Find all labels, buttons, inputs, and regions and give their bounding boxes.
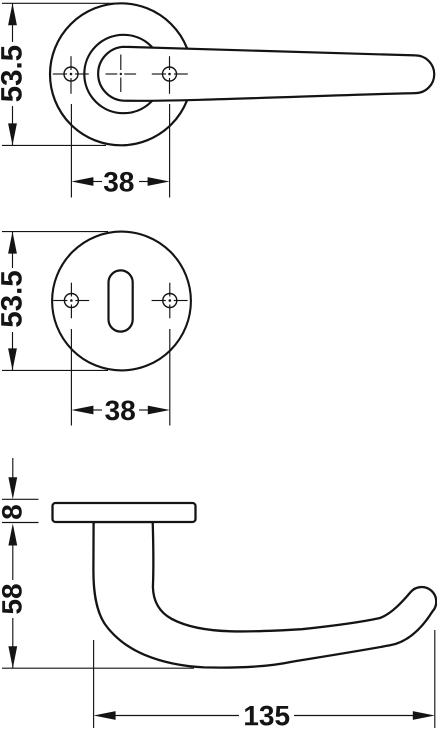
arrow down onto rose top (8 dim): [8, 477, 17, 499]
extension line left (38 dim view 2): [70, 329, 72, 426]
screw hole right dot (view 2): [169, 299, 172, 302]
dimension text 53.5 (view 1): [1, 46, 22, 102]
extension line rose top (8 dim): [2, 498, 39, 500]
escutcheon circle: [52, 232, 191, 371]
extension line right (38 dim view 1): [169, 104, 171, 198]
arrow down (53.5 view 1): [8, 123, 17, 145]
screw hole right (view 1) crosshair: [152, 56, 188, 94]
extension line top of escutcheon (53.5 dim): [2, 231, 108, 233]
dimension line 58: [12, 544, 14, 669]
extension line top of rose (53.5 dim): [2, 2, 120, 4]
dimension text 8: [2, 505, 22, 519]
extension line right (135 dim): [434, 630, 436, 728]
centre dot of rose: [120, 73, 122, 75]
rose collar (inner circle): [84, 35, 162, 113]
dimension line 38 (view 1): [92, 181, 149, 183]
lever handle outline (top view): [98, 47, 434, 101]
arrow left (38 view 2): [71, 406, 93, 415]
extension line rose bottom (8 dim): [2, 522, 39, 524]
neck left edge restated over rose joint: [92, 522, 94, 524]
extension line bottom of escutcheon (53.5 dim): [2, 369, 108, 371]
screw hole right circle (view 2): [163, 294, 177, 308]
arrow left (38 view 1): [71, 177, 93, 186]
dimension text 58: [2, 584, 22, 613]
screw hole left (view 1) crosshair: [53, 56, 89, 94]
dimension line 135: [114, 715, 415, 717]
arrow up (53.5 view 2): [8, 232, 17, 254]
screw hole right (view 2) crosshair: [152, 283, 188, 319]
rose outer circle: [50, 3, 192, 145]
screw hole left dot: [70, 73, 73, 76]
arrow up (53.5 view 1): [8, 3, 17, 25]
arrow up onto rose bottom (58 dim): [8, 524, 17, 546]
dimension text 38 (view 2): [105, 400, 135, 420]
extension line handle underside (58 dim): [2, 667, 194, 669]
screw hole left (view 2) crosshair: [53, 283, 89, 319]
extension line right (38 dim view 2): [169, 329, 171, 426]
arrow left (135 dim): [94, 711, 116, 720]
screw hole left circle: [64, 67, 78, 81]
dimension text 38 (view 1): [104, 172, 134, 192]
extension line left (135 dim): [93, 640, 95, 728]
rose side view (flat disc): [53, 503, 196, 522]
centre mark of rose (dash-dot cross): [106, 55, 137, 93]
dimension text 53.5 (view 2): [1, 271, 22, 327]
arrow right (135 dim): [413, 711, 435, 720]
arrow right (38 view 2): [148, 406, 170, 415]
arrow right (38 view 1): [148, 177, 170, 186]
arrow down (53.5 view 2): [8, 348, 17, 370]
keyhole slot: [109, 270, 133, 331]
extension line left (38 dim view 1): [70, 104, 72, 198]
screw hole left circle (view 2): [64, 294, 78, 308]
screw hole left dot (view 2): [70, 299, 73, 302]
dimension line 53.5 (view 2): [12, 232, 14, 371]
dimension line 38 (view 2): [92, 409, 149, 411]
dimension line 53.5 (view 1): [12, 3, 14, 145]
screw hole right circle: [163, 67, 177, 81]
dimension text 135: [245, 706, 289, 726]
handle profile (side view): [93, 522, 436, 668]
screw hole right dot: [168, 73, 171, 76]
extension line bottom of rose (53.5 dim): [2, 144, 106, 146]
leader line above (8 dim): [12, 458, 14, 479]
arrow down (58 dim): [8, 646, 17, 668]
